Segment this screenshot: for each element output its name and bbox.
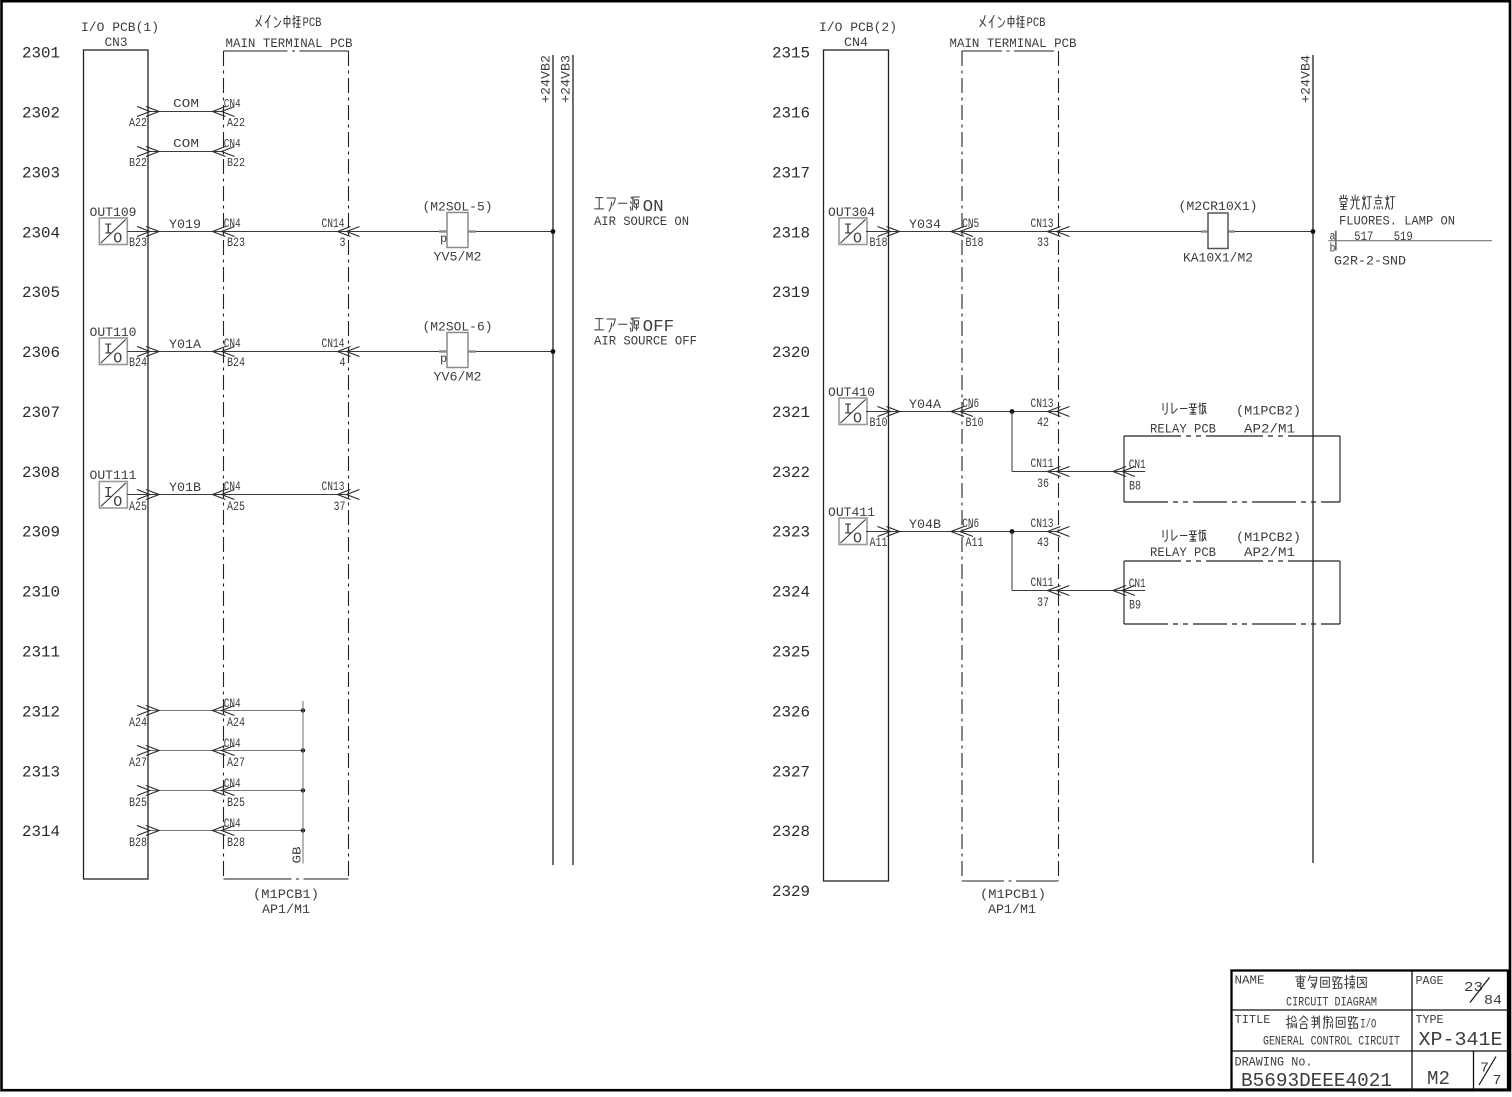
svg-text:CN13: CN13 xyxy=(1031,516,1054,531)
svg-text:CN13: CN13 xyxy=(1031,216,1054,231)
junction node on +24VB2 row 2304 xyxy=(551,229,556,234)
svg-text:(M1PCB1): (M1PCB1) xyxy=(253,887,319,902)
solenoid valve YV6/M2 (M2SOL-6) xyxy=(423,320,493,385)
svg-text:CN4: CN4 xyxy=(224,216,241,231)
svg-text:B25: B25 xyxy=(129,795,147,810)
svg-text:2322: 2322 xyxy=(772,464,810,482)
svg-text:CN4: CN4 xyxy=(224,336,241,351)
annotation air source on xyxy=(594,197,689,229)
svg-text:B8: B8 xyxy=(1129,479,1141,494)
svg-text:B18: B18 xyxy=(870,235,888,250)
svg-text:TYPE: TYPE xyxy=(1416,1013,1444,1027)
svg-text:2304: 2304 xyxy=(22,224,60,242)
svg-text:G2R-2-SND: G2R-2-SND xyxy=(1334,253,1406,268)
svg-text:4: 4 xyxy=(340,355,346,370)
svg-text:CN14: CN14 xyxy=(322,216,345,231)
annotation air source off xyxy=(594,318,697,349)
svg-text:+24VB3: +24VB3 xyxy=(559,55,574,103)
svg-text:7: 7 xyxy=(1493,1074,1502,1089)
svg-text:CN6: CN6 xyxy=(962,396,979,411)
svg-text:CN11: CN11 xyxy=(1031,575,1054,590)
MAIN TERMINAL PCB board box (left, M1PCB1 AP1/M1) xyxy=(224,15,353,917)
svg-text:2321: 2321 xyxy=(772,404,810,422)
svg-text:36: 36 xyxy=(1037,476,1049,491)
svg-text:B23: B23 xyxy=(129,235,147,250)
svg-text:Y034: Y034 xyxy=(909,217,941,232)
svg-text:A24: A24 xyxy=(227,715,245,730)
svg-text:2317: 2317 xyxy=(772,164,810,182)
svg-text:519: 519 xyxy=(1394,230,1413,244)
svg-text:B23: B23 xyxy=(227,235,245,250)
wire GB A27 (CN3-A27 to CN4-A27) xyxy=(129,736,305,770)
wire Y019 (OUT109 to CN14-3, solenoid YV5/M2) row 2304 xyxy=(127,216,553,250)
wire branch CN11-37 to relay CN1-B9 row 2324 xyxy=(1012,532,1146,613)
I/O PCB(2) CN4 board box xyxy=(819,20,897,881)
I/O output module symbol OUT110 xyxy=(99,338,127,368)
MAIN TERMINAL PCB board box (right, M1PCB1 AP1/M1) xyxy=(950,15,1077,917)
svg-text:GB: GB xyxy=(291,847,305,864)
svg-text:CN13: CN13 xyxy=(1031,396,1054,411)
svg-text:YV5/M2: YV5/M2 xyxy=(434,250,482,265)
svg-text:2311: 2311 xyxy=(22,644,60,662)
svg-text:AIR SOURCE ON: AIR SOURCE ON xyxy=(594,214,689,229)
svg-text:RELAY PCB: RELAY PCB xyxy=(1150,422,1216,437)
svg-text:O: O xyxy=(853,231,862,248)
wire GB B28 (CN3-B28 to CN4-B28) xyxy=(129,816,305,850)
svg-text:(M1PCB1): (M1PCB1) xyxy=(980,887,1046,902)
svg-text:A11: A11 xyxy=(870,535,888,550)
svg-text:CN1: CN1 xyxy=(1129,576,1146,591)
svg-text:2302: 2302 xyxy=(22,105,60,123)
svg-text:A11: A11 xyxy=(966,535,984,550)
svg-text:A24: A24 xyxy=(129,715,147,730)
svg-text:CN6: CN6 xyxy=(962,516,979,531)
svg-text:3: 3 xyxy=(340,235,346,250)
svg-text:CN4: CN4 xyxy=(224,816,241,831)
svg-text:MAIN TERMINAL PCB: MAIN TERMINAL PCB xyxy=(226,36,353,51)
svg-text:O: O xyxy=(853,531,862,548)
svg-text:2308: 2308 xyxy=(22,464,60,482)
power rail +24VB4 xyxy=(1299,55,1314,863)
svg-text:DRAWING No.: DRAWING No. xyxy=(1235,1056,1313,1070)
svg-text:2318: 2318 xyxy=(772,224,810,242)
svg-text:2326: 2326 xyxy=(772,703,810,721)
I/O output module symbol OUT111 xyxy=(99,482,127,512)
svg-text:I/O PCB(1): I/O PCB(1) xyxy=(81,20,159,35)
svg-text:PCB: PCB xyxy=(1027,15,1046,30)
svg-text:O: O xyxy=(113,231,122,248)
power rail +24VB3 xyxy=(559,55,574,865)
svg-text:A22: A22 xyxy=(227,116,245,130)
svg-text:CN3: CN3 xyxy=(105,35,128,50)
svg-text:CN11: CN11 xyxy=(1031,456,1054,471)
svg-text:A22: A22 xyxy=(129,116,147,130)
title block xyxy=(1232,971,1509,1093)
svg-text:Y01B: Y01B xyxy=(169,480,201,495)
wire GB B25 (CN3-B25 to CN4-B25) xyxy=(129,776,305,810)
wire Y04B (OUT411 to CN13-43) row 2323 xyxy=(866,516,1070,550)
svg-text:COM: COM xyxy=(173,137,199,151)
wire COM (CN3-B22 to CN4-B22) xyxy=(129,137,245,170)
svg-text:I: I xyxy=(843,222,852,239)
svg-text:AP2/M1: AP2/M1 xyxy=(1244,545,1295,560)
svg-text:AIR SOURCE OFF: AIR SOURCE OFF xyxy=(594,334,697,349)
wire COM (CN3-A22 to CN4-A22) row 2302 xyxy=(129,97,245,130)
svg-text:A25: A25 xyxy=(227,499,245,514)
svg-text:B10: B10 xyxy=(966,415,984,430)
line number labels 2301-2314 xyxy=(22,45,60,841)
svg-text:(M1PCB2): (M1PCB2) xyxy=(1236,530,1301,545)
svg-text:CN5: CN5 xyxy=(962,216,979,231)
svg-text:FLUORES. LAMP ON: FLUORES. LAMP ON xyxy=(1339,213,1455,228)
svg-text:37: 37 xyxy=(1037,595,1049,610)
svg-text:37: 37 xyxy=(334,499,346,514)
svg-text:2323: 2323 xyxy=(772,524,810,542)
svg-text:517: 517 xyxy=(1354,230,1373,244)
relay PCB box 2 (M1PCB2 AP2/M1) xyxy=(1124,530,1340,624)
svg-text:A25: A25 xyxy=(129,499,147,514)
svg-text:O: O xyxy=(113,494,122,511)
relay coil KA10X1/M2 (M2CR10X1) xyxy=(1179,199,1258,266)
svg-text:YV6/M2: YV6/M2 xyxy=(434,370,482,385)
wire branch CN11-36 to relay CN1-B8 row 2322 xyxy=(1012,412,1146,494)
line number labels 2315-2329 xyxy=(772,45,810,901)
svg-text:+24VB4: +24VB4 xyxy=(1299,55,1314,103)
solenoid valve YV5/M2 (M2SOL-5) xyxy=(423,200,493,265)
svg-text:2312: 2312 xyxy=(22,703,60,721)
svg-text:43: 43 xyxy=(1037,535,1049,550)
wire Y01B (OUT111 to CN13-37) row 2308 xyxy=(127,479,359,514)
GB ground bus xyxy=(291,701,305,864)
svg-text:B18: B18 xyxy=(966,235,984,250)
svg-text:B24: B24 xyxy=(227,355,245,370)
svg-text:CN4: CN4 xyxy=(224,97,241,111)
svg-text:(M2CR10X1): (M2CR10X1) xyxy=(1179,199,1258,214)
svg-text:B5693DEEE4021: B5693DEEE4021 xyxy=(1241,1070,1392,1092)
svg-text:42: 42 xyxy=(1037,415,1049,430)
svg-text:2327: 2327 xyxy=(772,763,810,781)
svg-text:A27: A27 xyxy=(129,755,147,770)
annotation fluorescent lamp on, relay contact refs xyxy=(1328,195,1492,268)
svg-text:Y019: Y019 xyxy=(169,217,201,232)
wire Y04A (OUT410 to CN13-42) row 2321 xyxy=(866,396,1070,430)
svg-text:2329: 2329 xyxy=(772,883,810,901)
svg-text:CN13: CN13 xyxy=(322,479,345,494)
svg-text:2310: 2310 xyxy=(22,584,60,602)
svg-text:CIRCUIT DIAGRAM: CIRCUIT DIAGRAM xyxy=(1286,995,1377,1010)
svg-text:2303: 2303 xyxy=(22,164,60,182)
svg-text:M2: M2 xyxy=(1427,1068,1450,1090)
svg-text:I/O: I/O xyxy=(1360,1018,1376,1032)
svg-text:2328: 2328 xyxy=(772,823,810,841)
svg-text:I: I xyxy=(843,522,852,539)
svg-text:RELAY PCB: RELAY PCB xyxy=(1150,545,1216,560)
svg-text:O: O xyxy=(113,351,122,368)
svg-text:TITLE: TITLE xyxy=(1235,1013,1271,1027)
svg-text:23: 23 xyxy=(1464,981,1483,996)
svg-text:I: I xyxy=(843,402,852,419)
svg-text:2314: 2314 xyxy=(22,823,60,841)
svg-text:(M2SOL-5): (M2SOL-5) xyxy=(423,200,493,215)
svg-text:2320: 2320 xyxy=(772,344,810,362)
svg-text:CN1: CN1 xyxy=(1129,457,1146,472)
svg-text:NAME: NAME xyxy=(1235,974,1265,988)
svg-text:p: p xyxy=(440,352,447,366)
svg-text:AP1/M1: AP1/M1 xyxy=(988,902,1036,917)
relay PCB box 1 (M1PCB2 AP2/M1) xyxy=(1124,403,1340,502)
svg-text:CN4: CN4 xyxy=(844,35,868,50)
svg-text:GENERAL CONTROL CIRCUIT: GENERAL CONTROL CIRCUIT xyxy=(1263,1035,1400,1049)
svg-text:AP1/M1: AP1/M1 xyxy=(262,902,310,917)
svg-text:B28: B28 xyxy=(227,835,245,850)
svg-text:2319: 2319 xyxy=(772,284,810,302)
I/O output module symbol OUT411 xyxy=(839,518,867,548)
svg-text:7: 7 xyxy=(1480,1062,1489,1077)
junction node on +24VB2 row 2306 xyxy=(551,349,556,354)
svg-text:2324: 2324 xyxy=(772,584,810,602)
junction node on +24VB4 row 2318 xyxy=(1311,229,1316,234)
svg-text:CN4: CN4 xyxy=(224,776,241,791)
svg-text:A27: A27 xyxy=(227,755,245,770)
svg-text:Y04B: Y04B xyxy=(909,517,941,532)
svg-text:PCB: PCB xyxy=(303,15,322,30)
svg-text:I: I xyxy=(104,222,113,239)
svg-text:Y04A: Y04A xyxy=(909,397,941,412)
svg-text:PAGE: PAGE xyxy=(1416,974,1444,988)
svg-text:2309: 2309 xyxy=(22,524,60,542)
svg-text:2306: 2306 xyxy=(22,344,60,362)
svg-text:B25: B25 xyxy=(227,795,245,810)
I/O PCB(1) CN3 board box xyxy=(81,20,159,879)
svg-text:Y01A: Y01A xyxy=(169,337,201,352)
svg-text:2305: 2305 xyxy=(22,284,60,302)
svg-text:33: 33 xyxy=(1037,235,1049,250)
svg-text:XP-341E: XP-341E xyxy=(1419,1029,1503,1051)
svg-text:(M2SOL-6): (M2SOL-6) xyxy=(423,320,493,335)
svg-text:(M1PCB2): (M1PCB2) xyxy=(1236,404,1301,419)
svg-text:B22: B22 xyxy=(227,156,245,170)
power rail +24VB2 xyxy=(539,55,554,865)
svg-text:AP2/M1: AP2/M1 xyxy=(1244,422,1295,437)
svg-text:O: O xyxy=(853,411,862,428)
svg-text:MAIN TERMINAL PCB: MAIN TERMINAL PCB xyxy=(950,36,1077,51)
I/O output module symbol OUT410 xyxy=(839,398,867,428)
svg-text:CN4: CN4 xyxy=(224,137,241,151)
svg-text:B24: B24 xyxy=(129,355,147,370)
svg-text:2301: 2301 xyxy=(22,45,60,63)
svg-text:2313: 2313 xyxy=(22,763,60,781)
svg-text:2325: 2325 xyxy=(772,644,810,662)
svg-text:B28: B28 xyxy=(129,835,147,850)
svg-text:CN4: CN4 xyxy=(224,696,241,711)
svg-text:2316: 2316 xyxy=(772,105,810,123)
svg-text:CN14: CN14 xyxy=(322,336,345,351)
wire GB A24 (CN3-A24 to CN4-A24) xyxy=(129,696,305,730)
svg-text:CN4: CN4 xyxy=(224,479,241,494)
svg-text:B10: B10 xyxy=(870,415,888,430)
wire Y034 (OUT304 to relay KA10X1, CN13-33) row 2318 xyxy=(866,216,1313,250)
wire Y01A (OUT110 to CN14-4, solenoid YV6/M2) row 2306 xyxy=(127,336,553,370)
svg-text:B22: B22 xyxy=(129,156,147,170)
svg-text:I: I xyxy=(104,342,113,359)
svg-text:2315: 2315 xyxy=(772,45,810,63)
svg-text:KA10X1/M2: KA10X1/M2 xyxy=(1183,251,1253,266)
I/O output module symbol OUT109 xyxy=(99,218,127,248)
svg-text:COM: COM xyxy=(173,97,199,111)
svg-text:B9: B9 xyxy=(1129,598,1141,613)
svg-text:2307: 2307 xyxy=(22,404,60,422)
svg-text:p: p xyxy=(440,232,447,246)
svg-text:84: 84 xyxy=(1484,994,1502,1009)
I/O output module symbol OUT304 xyxy=(839,218,867,248)
svg-text:+24VB2: +24VB2 xyxy=(539,55,554,103)
svg-text:CN4: CN4 xyxy=(224,736,241,751)
svg-text:I/O PCB(2): I/O PCB(2) xyxy=(819,20,897,35)
svg-text:I: I xyxy=(104,485,113,502)
